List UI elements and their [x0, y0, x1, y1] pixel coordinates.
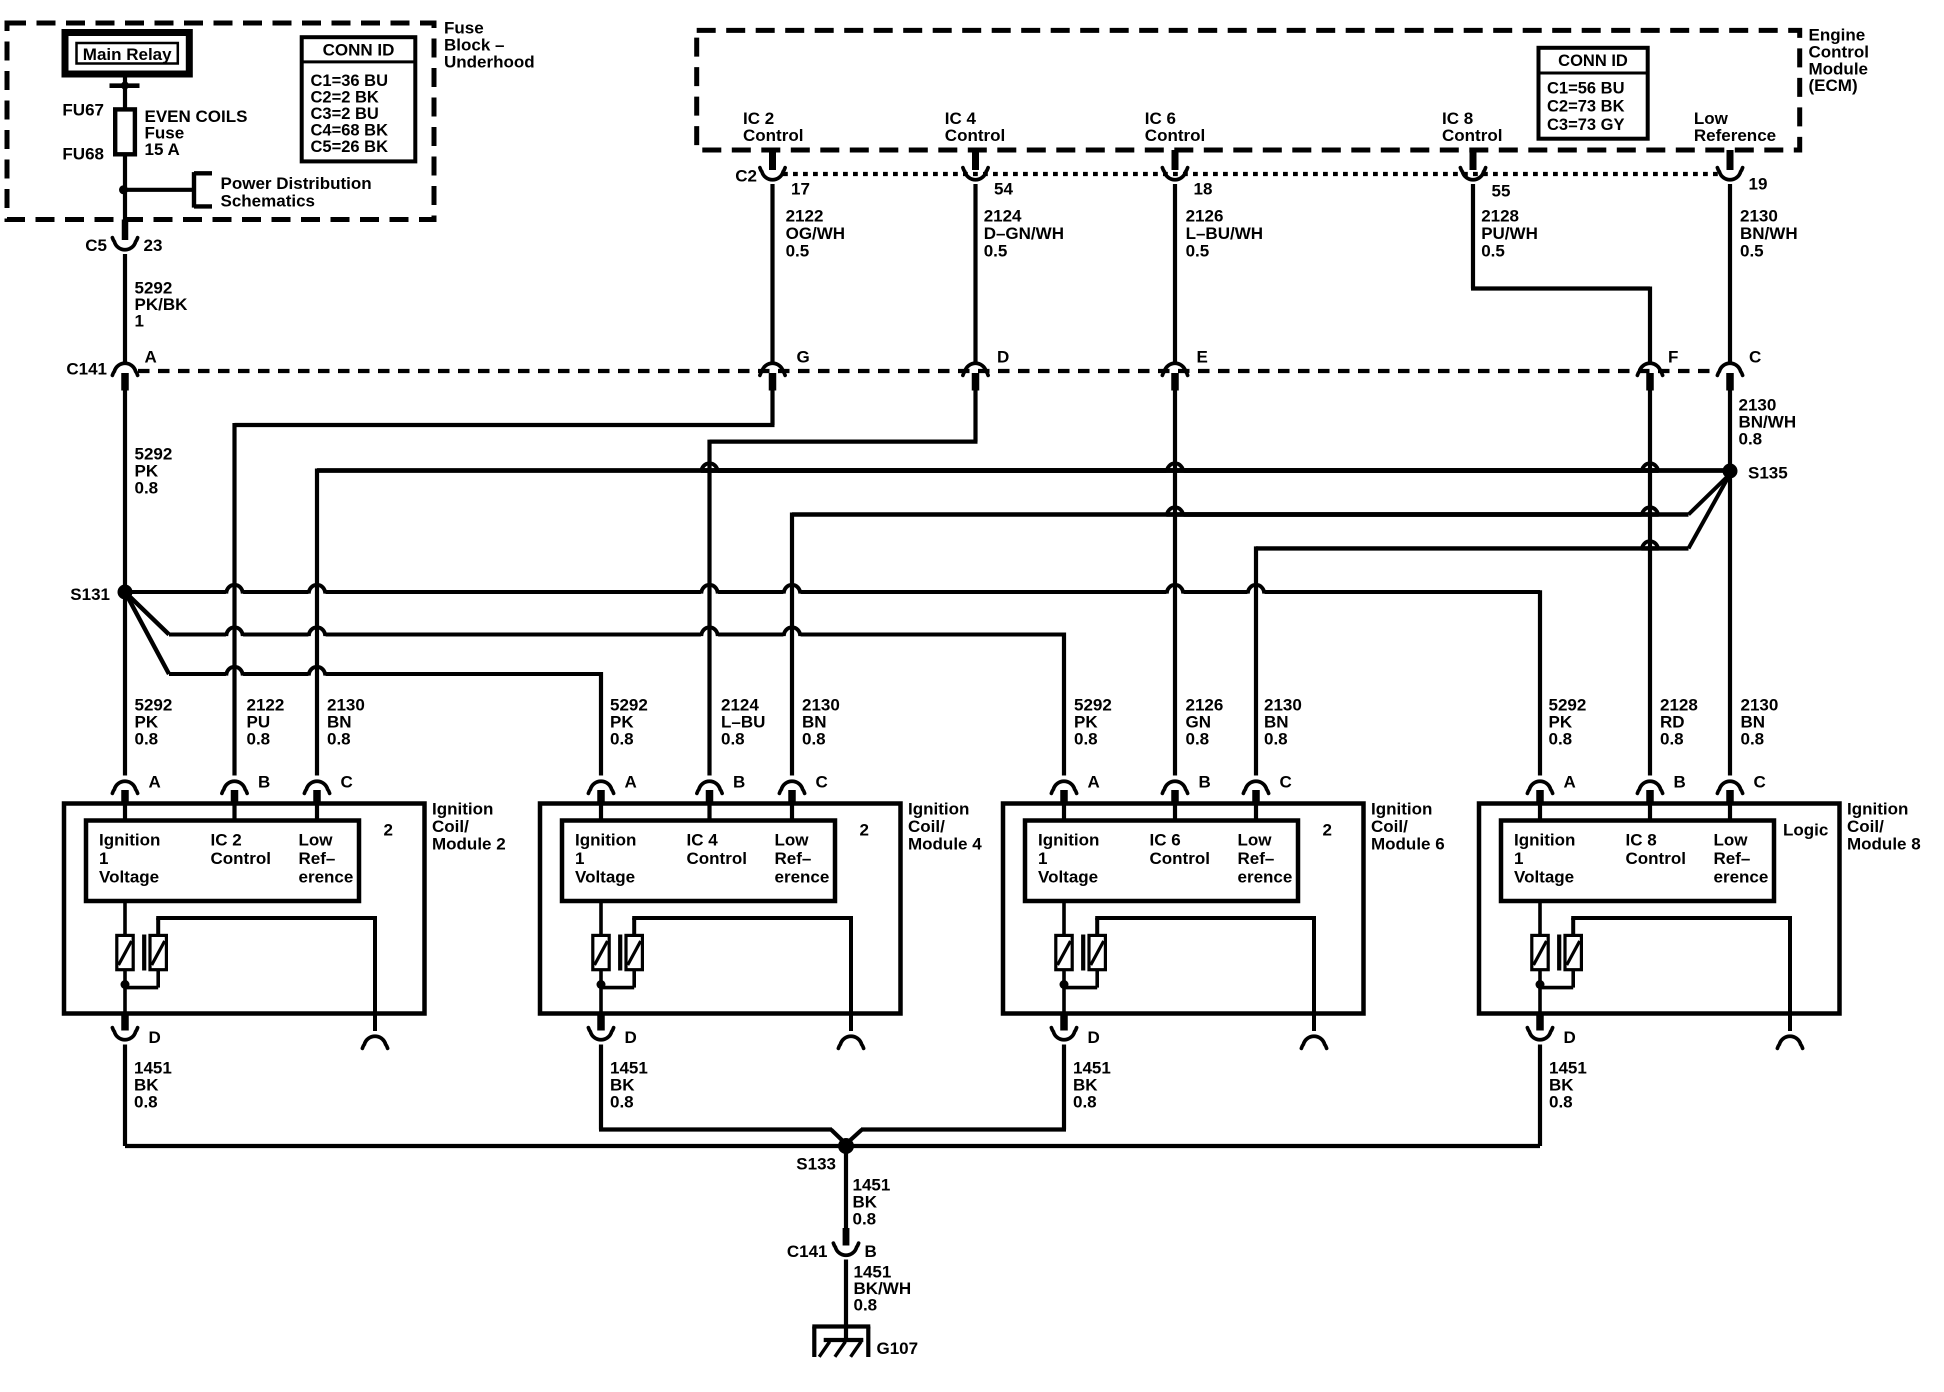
svg-text:PU/WH: PU/WH — [1481, 224, 1538, 243]
svg-text:0.5: 0.5 — [1740, 242, 1764, 261]
svg-text:D: D — [625, 1028, 637, 1047]
module pin A connector — [1527, 781, 1552, 793]
svg-text:C1=36 BU: C1=36 BU — [311, 72, 389, 90]
svg-text:Voltage: Voltage — [575, 868, 635, 887]
wire: secondary winding loop to low reference output — [1571, 918, 1575, 935]
svg-text:D–GN/WH: D–GN/WH — [984, 224, 1064, 243]
svg-text:Low: Low — [1714, 831, 1749, 850]
wire: IC2 to C141 G — [770, 184, 774, 362]
svg-text:A: A — [625, 773, 637, 792]
svg-text:0.8: 0.8 — [327, 730, 351, 749]
ground G107 — [812, 1324, 870, 1328]
svg-text:FU68: FU68 — [62, 145, 104, 164]
ECM connector C2 pin 54 — [972, 150, 979, 170]
svg-text:S131: S131 — [70, 585, 110, 604]
wire 5292 PK 0.8 : C141 A to S131 — [123, 388, 127, 592]
svg-text:0.8: 0.8 — [1549, 1093, 1573, 1112]
svg-text:0.8: 0.8 — [1264, 730, 1288, 749]
svg-text:2130: 2130 — [1740, 207, 1778, 226]
svg-text:0.8: 0.8 — [1073, 1093, 1097, 1112]
svg-text:0.8: 0.8 — [135, 730, 159, 749]
svg-text:Schematics: Schematics — [221, 192, 316, 211]
svg-text:Logic: Logic — [1783, 821, 1828, 840]
svg-text:(ECM): (ECM) — [1809, 76, 1858, 95]
svg-text:0.8: 0.8 — [854, 1296, 878, 1315]
wire: secondary winding loop to low reference output — [632, 918, 636, 935]
svg-text:D: D — [1564, 1028, 1576, 1047]
splice S133 — [838, 1138, 854, 1154]
svg-text:D: D — [149, 1028, 161, 1047]
svg-text:Ignition: Ignition — [908, 800, 969, 819]
svg-text:A: A — [1088, 773, 1100, 792]
wire: pin C into inner box — [315, 805, 319, 821]
svg-text:0.8: 0.8 — [247, 730, 271, 749]
module pin D connector — [121, 1014, 129, 1031]
wire: pin C into inner box — [1728, 805, 1732, 821]
svg-text:0.8: 0.8 — [853, 1210, 877, 1229]
module pin B connector — [1637, 781, 1662, 793]
svg-text:Control: Control — [1442, 126, 1502, 145]
wire: ignition 1 voltage to primary winding — [1538, 901, 1542, 936]
svg-text:Ref–: Ref– — [1238, 849, 1275, 868]
engine control module (ECM) dashed box — [697, 30, 1800, 150]
svg-text:Main Relay: Main Relay — [83, 45, 172, 64]
svg-text:17: 17 — [791, 180, 810, 199]
fuse FU67/FU68 EVEN COILS 15 A — [115, 109, 135, 154]
svg-text:0.8: 0.8 — [610, 1093, 634, 1112]
svg-text:C3=73 GY: C3=73 GY — [1547, 116, 1625, 134]
wire: primary winding to pin D — [1062, 970, 1066, 1014]
svg-text:Module 6: Module 6 — [1371, 835, 1445, 854]
wire: module6 D to S133 — [1062, 1060, 1066, 1130]
power distribution schematics bracket — [192, 172, 196, 208]
ignition coil/module 8 box — [1479, 804, 1840, 1014]
svg-text:Coil/: Coil/ — [432, 817, 469, 836]
module pin B connector — [222, 781, 247, 793]
connector C141 pin E — [1162, 363, 1187, 375]
svg-text:erence: erence — [775, 868, 830, 887]
svg-text:C: C — [1749, 348, 1761, 367]
svg-text:Ignition: Ignition — [99, 831, 160, 850]
wire: tap to power distribution bracket — [124, 188, 195, 192]
wire: S135 branch to module4 pin C — [1689, 474, 1731, 515]
svg-text:23: 23 — [144, 236, 163, 255]
coil common junction dot — [1060, 980, 1069, 989]
wire: S131 branch to module4 pin A — [125, 592, 169, 674]
svg-text:OG/WH: OG/WH — [786, 224, 846, 243]
svg-text:0.5: 0.5 — [984, 242, 1008, 261]
wire: C141 G jog down to module2 pin B rail — [770, 388, 774, 425]
module pin C connector — [304, 781, 329, 793]
module pin B connector — [1162, 781, 1187, 793]
wire: S131 main line to module8 pin A — [125, 590, 226, 594]
wire: module2 D down to ground bus — [123, 1060, 127, 1146]
coil primary winding — [1532, 935, 1548, 969]
wire 1451 BK 0.8 from pin D — [1538, 1045, 1542, 1061]
module inner terminal box — [86, 821, 359, 902]
svg-text:Ref–: Ref– — [1714, 849, 1751, 868]
connector C141 pin F — [1637, 363, 1662, 375]
svg-text:Ignition: Ignition — [1038, 831, 1099, 850]
module pin A connector — [112, 781, 137, 793]
svg-text:A: A — [1564, 773, 1576, 792]
wire: pin A into inner box — [1538, 805, 1542, 821]
wire: secondary winding to common junction — [156, 970, 160, 988]
wire: ignition 1 voltage to primary winding — [1062, 901, 1066, 936]
module pin A connector — [1051, 781, 1076, 793]
svg-text:1: 1 — [1514, 849, 1523, 868]
svg-text:C: C — [816, 773, 828, 792]
svg-text:2122: 2122 — [786, 207, 824, 226]
wire: pin B into inner box — [1173, 805, 1177, 821]
svg-text:Ref–: Ref– — [299, 849, 336, 868]
wire: S135 down to module8 pin C — [1728, 471, 1732, 776]
svg-text:Coil/: Coil/ — [908, 817, 945, 836]
wire: secondary winding to common junction — [1571, 970, 1575, 988]
svg-text:15 A: 15 A — [145, 140, 180, 159]
connector C2 dotted line — [783, 172, 1719, 176]
svg-text:CONN ID: CONN ID — [323, 41, 395, 60]
svg-text:CONN ID: CONN ID — [1558, 52, 1628, 70]
svg-text:IC 6: IC 6 — [1150, 831, 1181, 850]
wire: pin A into inner box — [599, 805, 603, 821]
coil core — [1081, 935, 1085, 971]
wire: secondary winding to common junction — [632, 970, 636, 988]
svg-text:erence: erence — [1714, 868, 1769, 887]
connector C141 pin G — [760, 363, 785, 375]
wire 1451 BK 0.8 : S133 to C141 B — [844, 1146, 848, 1229]
coil primary winding — [593, 935, 609, 969]
svg-text:Control: Control — [687, 849, 747, 868]
wire: secondary winding loop to low reference output — [156, 918, 160, 935]
svg-text:FU67: FU67 — [62, 101, 104, 120]
module inner terminal box — [1501, 821, 1774, 902]
wire: S131 down to module2 pin A — [123, 592, 127, 776]
svg-text:C: C — [1280, 773, 1292, 792]
svg-text:C2: C2 — [735, 167, 757, 186]
wire: S135 main line to module2 pin C — [701, 468, 1730, 473]
wire: pin B into inner box — [1648, 805, 1652, 821]
coil common junction dot — [1536, 980, 1545, 989]
svg-text:Reference: Reference — [1694, 126, 1776, 145]
svg-text:erence: erence — [299, 868, 354, 887]
svg-text:BN/WH: BN/WH — [1740, 224, 1798, 243]
connector C5 pin 23 — [122, 220, 129, 241]
coil secondary winding — [150, 935, 166, 969]
svg-text:Voltage: Voltage — [1514, 868, 1574, 887]
wire 1451 BK/WH 0.8 : C141 B to G107 — [844, 1260, 848, 1341]
svg-text:Ignition: Ignition — [1847, 800, 1908, 819]
wire: C141 D jog down to module4 pin B rail — [973, 388, 977, 442]
svg-text:Ref–: Ref– — [775, 849, 812, 868]
svg-text:Module 2: Module 2 — [432, 835, 506, 854]
relay pin tick — [110, 83, 140, 88]
svg-text:2126: 2126 — [1186, 207, 1224, 226]
module inner terminal box — [562, 821, 835, 902]
svg-text:Control: Control — [945, 126, 1005, 145]
module low reference output connector — [1312, 1014, 1316, 1032]
coil core — [618, 935, 622, 971]
svg-text:C4=68 BK: C4=68 BK — [311, 122, 389, 140]
wire: pin C into inner box — [1254, 805, 1258, 821]
CONN ID table (ECM) — [1539, 48, 1648, 139]
svg-text:L–BU/WH: L–BU/WH — [1186, 224, 1263, 243]
coil secondary winding — [1565, 935, 1581, 969]
wire: IC6 to C141 E — [1173, 184, 1177, 362]
svg-text:2: 2 — [384, 821, 393, 840]
wire 1451 BK 0.8 from pin D — [123, 1045, 127, 1061]
svg-text:19: 19 — [1749, 175, 1768, 194]
svg-text:Control: Control — [1145, 126, 1205, 145]
wire: main relay to fuse — [123, 74, 127, 110]
splice S135 — [1723, 464, 1738, 479]
ECM connector C2 pin 19 — [1727, 150, 1734, 170]
module pin D connector — [597, 1014, 605, 1031]
junction dot power distribution tap — [119, 185, 128, 194]
coil core — [142, 935, 146, 971]
wire: pin B into inner box — [232, 805, 236, 821]
svg-text:C2=2 BK: C2=2 BK — [311, 89, 379, 107]
svg-text:Ignition: Ignition — [1371, 800, 1432, 819]
module low reference output connector — [373, 1014, 377, 1032]
svg-text:Coil/: Coil/ — [1847, 817, 1884, 836]
svg-text:D: D — [1088, 1028, 1100, 1047]
ignition coil/module 6 box — [1003, 804, 1364, 1014]
svg-text:IC 8: IC 8 — [1626, 831, 1657, 850]
svg-text:B: B — [865, 1242, 877, 1261]
ignition coil/module 4 box — [540, 804, 901, 1014]
wire: IC4 to C141 D — [973, 184, 977, 362]
ground bus wire 1451 — [125, 1144, 1540, 1148]
svg-text:Control: Control — [1150, 849, 1210, 868]
wire: C141 F straight to module8 pin B — [1648, 388, 1652, 776]
svg-text:0.8: 0.8 — [1739, 430, 1763, 449]
svg-text:B: B — [258, 773, 270, 792]
coil secondary winding — [1089, 935, 1105, 969]
svg-text:S135: S135 — [1748, 464, 1788, 483]
module pin C connector — [1243, 781, 1268, 793]
svg-text:C2=73 BK: C2=73 BK — [1547, 98, 1625, 116]
svg-text:Ignition: Ignition — [432, 800, 493, 819]
connector C141 pin A — [112, 363, 137, 375]
svg-text:Module 4: Module 4 — [908, 835, 982, 854]
svg-text:Voltage: Voltage — [1038, 868, 1098, 887]
svg-text:S133: S133 — [796, 1155, 836, 1174]
wire: IC8 jog to C141 F — [1471, 184, 1475, 289]
svg-text:0.8: 0.8 — [1186, 730, 1210, 749]
wire 1451 BK 0.8 from pin D — [1062, 1045, 1066, 1061]
svg-text:Ignition: Ignition — [1514, 831, 1575, 850]
svg-text:C: C — [341, 773, 353, 792]
wire: secondary winding loop to low reference output — [1095, 918, 1099, 935]
svg-text:2: 2 — [860, 821, 869, 840]
module low reference output connector — [1788, 1014, 1792, 1032]
module low reference output connector — [849, 1014, 853, 1032]
svg-text:C141: C141 — [787, 1242, 828, 1261]
wire: secondary winding to common junction — [1095, 970, 1099, 988]
svg-text:0.8: 0.8 — [135, 479, 159, 498]
wire 5292 PK/BK 1 : C5 to C141 A — [123, 254, 127, 362]
wire: fuse to junction and C5 — [123, 154, 127, 222]
svg-text:Underhood: Underhood — [444, 53, 535, 72]
svg-text:0.8: 0.8 — [1660, 730, 1684, 749]
svg-text:D: D — [997, 348, 1009, 367]
main relay K (Main Relay) — [65, 33, 189, 75]
ECM connector C2 pin 17 — [769, 150, 776, 170]
svg-text:2: 2 — [1323, 821, 1332, 840]
svg-text:0.8: 0.8 — [1741, 730, 1765, 749]
svg-text:18: 18 — [1194, 180, 1213, 199]
coil common junction dot — [597, 980, 606, 989]
splice S131 — [118, 585, 133, 600]
wire 1451 BK 0.8 from pin D — [599, 1045, 603, 1061]
svg-text:2124: 2124 — [984, 207, 1022, 226]
wire: primary winding to pin D — [123, 970, 127, 1014]
wire: Low Reference to C141 C — [1728, 184, 1732, 362]
connector C141 pin C — [1717, 363, 1742, 375]
CONN ID table (fuse block) — [302, 37, 416, 161]
svg-text:0.8: 0.8 — [134, 1093, 158, 1112]
wire: module4 D to S133 — [599, 1060, 603, 1130]
svg-text:Control: Control — [1626, 849, 1686, 868]
fuse block underhood dashed box — [7, 23, 434, 220]
wire: primary winding to pin D — [599, 970, 603, 1014]
svg-text:F: F — [1668, 348, 1678, 367]
svg-text:0.8: 0.8 — [1074, 730, 1098, 749]
svg-text:C1=56 BU: C1=56 BU — [1547, 79, 1625, 97]
wire: primary winding to pin D — [1538, 970, 1542, 1014]
coil common junction dot — [121, 980, 130, 989]
svg-text:Coil/: Coil/ — [1371, 817, 1408, 836]
svg-text:Low: Low — [775, 831, 810, 850]
connector C141 dashed line — [138, 369, 1718, 373]
svg-text:C: C — [1754, 773, 1766, 792]
svg-text:IC 4: IC 4 — [687, 831, 719, 850]
wire: module8 D down to ground bus — [1538, 1060, 1542, 1146]
svg-text:A: A — [149, 773, 161, 792]
wire: pin A into inner box — [1062, 805, 1066, 821]
module pin A connector — [588, 781, 613, 793]
module pin B connector — [697, 781, 722, 793]
svg-text:B: B — [1674, 773, 1686, 792]
svg-text:1: 1 — [99, 849, 108, 868]
ECM connector C2 pin 55 — [1470, 150, 1477, 170]
svg-text:2128: 2128 — [1481, 207, 1519, 226]
module pin C connector — [779, 781, 804, 793]
svg-text:0.5: 0.5 — [786, 242, 810, 261]
svg-text:Control: Control — [743, 126, 803, 145]
svg-text:0.8: 0.8 — [802, 730, 826, 749]
svg-text:Voltage: Voltage — [99, 868, 159, 887]
svg-text:B: B — [733, 773, 745, 792]
svg-text:C141: C141 — [66, 360, 107, 379]
module pin C connector — [1717, 781, 1742, 793]
svg-text:G: G — [797, 348, 810, 367]
wire: pin A into inner box — [123, 805, 127, 821]
ECM connector C2 pin 18 — [1172, 150, 1179, 170]
svg-text:Module 8: Module 8 — [1847, 835, 1921, 854]
connector C141 pin B — [843, 1228, 850, 1246]
svg-text:54: 54 — [994, 180, 1013, 199]
svg-text:1: 1 — [1038, 849, 1047, 868]
ignition coil/module 2 box — [64, 804, 425, 1014]
svg-text:E: E — [1197, 348, 1208, 367]
coil primary winding — [1056, 935, 1072, 969]
svg-text:0.5: 0.5 — [1481, 242, 1505, 261]
wire: pin C into inner box — [790, 805, 794, 821]
svg-text:1: 1 — [135, 312, 144, 331]
connector C141 pin D — [963, 363, 988, 375]
wire: S131 branch to module6 pin A — [125, 592, 169, 635]
module inner terminal box — [1025, 821, 1298, 902]
module pin D connector — [1536, 1014, 1544, 1031]
coil secondary winding — [626, 935, 642, 969]
coil core — [1557, 935, 1561, 971]
svg-text:55: 55 — [1492, 182, 1511, 201]
module pin D connector — [1060, 1014, 1068, 1031]
svg-text:C3=2 BU: C3=2 BU — [311, 105, 379, 123]
svg-text:Ignition: Ignition — [575, 831, 636, 850]
svg-text:0.8: 0.8 — [721, 730, 745, 749]
wire: S135 branch to module6 pin C — [1689, 474, 1731, 548]
svg-text:Low: Low — [1238, 831, 1273, 850]
svg-text:0.8: 0.8 — [610, 730, 634, 749]
svg-text:C5=26 BK: C5=26 BK — [311, 138, 389, 156]
wire: C141 E straight to module6 pin B — [1173, 388, 1177, 776]
svg-text:C5: C5 — [85, 236, 107, 255]
wire: ignition 1 voltage to primary winding — [599, 901, 603, 936]
svg-text:Control: Control — [211, 849, 271, 868]
wire: pin B into inner box — [707, 805, 711, 821]
svg-text:1: 1 — [575, 849, 584, 868]
svg-text:Power Distribution: Power Distribution — [221, 174, 372, 193]
wire 2130 BN/WH 0.8 : C141 C to S135 — [1728, 388, 1732, 471]
svg-text:Low: Low — [299, 831, 334, 850]
svg-text:G107: G107 — [877, 1339, 919, 1358]
svg-text:A: A — [145, 348, 157, 367]
svg-text:erence: erence — [1238, 868, 1293, 887]
coil primary winding — [117, 935, 133, 969]
wire: ignition 1 voltage to primary winding — [123, 901, 127, 936]
svg-text:0.5: 0.5 — [1186, 242, 1210, 261]
wire crossover hops — [701, 463, 717, 472]
svg-text:IC 2: IC 2 — [211, 831, 242, 850]
svg-text:0.8: 0.8 — [1549, 730, 1573, 749]
svg-text:B: B — [1199, 773, 1211, 792]
